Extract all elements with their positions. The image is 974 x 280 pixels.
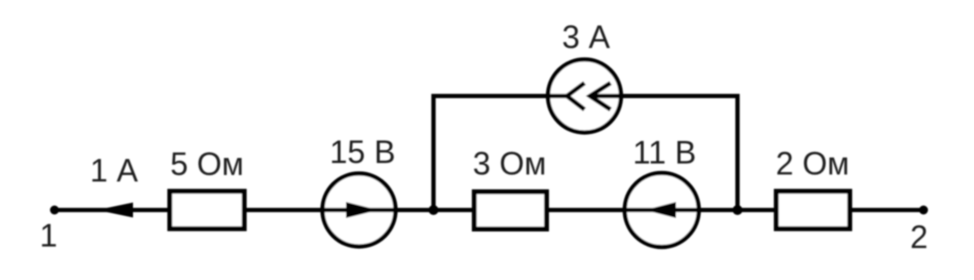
resistor R2 3 Om [474, 192, 546, 229]
wire terminal1 to R1 [55, 208, 171, 212]
resistor R3 2 Om [776, 191, 850, 229]
current source J1 3 A [547, 60, 624, 133]
svg-text:3 А: 3 А [562, 19, 611, 55]
svg-text:5 Ом: 5 Ом [170, 146, 244, 182]
node A junction dot [429, 205, 439, 215]
terminal 1 [50, 206, 59, 215]
wire node B to R3 [738, 208, 777, 212]
node B junction dot [733, 205, 743, 215]
wire R3 to terminal 2 [850, 208, 924, 212]
wire R2 to E2 [547, 208, 627, 212]
wire node A up and across to J1 [434, 96, 549, 210]
terminal 2 [919, 206, 928, 215]
voltage source E2 11 V [625, 173, 699, 247]
svg-text:15 В: 15 В [330, 134, 396, 170]
wire node A to R2 [434, 208, 475, 212]
voltage source E1 15 V [323, 174, 396, 247]
wire E2 to node B [697, 208, 738, 212]
svg-text:11 В: 11 В [633, 135, 696, 171]
resistor R1 5 Om [170, 191, 245, 229]
wire E1 to node A [396, 208, 434, 212]
current arrow 1 A [97, 203, 133, 218]
wire R1 to E1 [245, 208, 324, 212]
svg-text:3 Ом: 3 Ом [473, 146, 547, 182]
svg-text:2 Ом: 2 Ом [776, 146, 850, 182]
wire J1 to right corner and down to node B [622, 96, 738, 210]
svg-text:2: 2 [910, 219, 928, 255]
svg-text:1: 1 [40, 218, 58, 254]
svg-text:1 А: 1 А [90, 153, 139, 189]
